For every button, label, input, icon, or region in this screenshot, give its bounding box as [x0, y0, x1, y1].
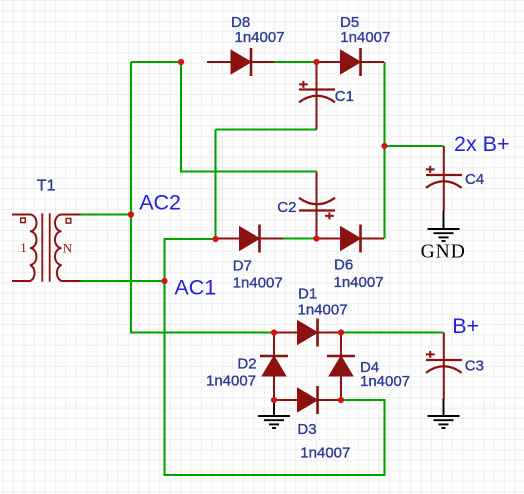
svg-text:B+: B+: [452, 314, 479, 338]
svg-text:1n4007: 1n4007: [340, 29, 390, 46]
svg-text:2x B+: 2x B+: [454, 132, 510, 156]
svg-text:D7: D7: [233, 257, 252, 274]
svg-text:1: 1: [20, 240, 27, 255]
svg-text:C1: C1: [335, 88, 354, 105]
svg-text:1n4007: 1n4007: [233, 275, 283, 292]
svg-text:GND: GND: [421, 241, 466, 262]
svg-text:T1: T1: [37, 177, 56, 194]
svg-text:D1: D1: [298, 286, 317, 303]
svg-text:D3: D3: [297, 421, 316, 438]
svg-text:C2: C2: [277, 199, 296, 216]
svg-text:C3: C3: [465, 357, 484, 374]
svg-text:1n4007: 1n4007: [300, 445, 350, 462]
svg-text:1n4007: 1n4007: [360, 373, 410, 390]
svg-text:D2: D2: [237, 355, 256, 372]
svg-text:1n4007: 1n4007: [206, 373, 256, 390]
svg-text:1n4007: 1n4007: [298, 301, 348, 318]
svg-text:C4: C4: [465, 171, 484, 188]
svg-text:1n4007: 1n4007: [235, 29, 285, 46]
svg-text:N: N: [63, 241, 73, 256]
svg-text:AC1: AC1: [174, 276, 216, 300]
svg-text:1n4007: 1n4007: [334, 274, 384, 291]
svg-text:AC2: AC2: [139, 191, 181, 215]
svg-text:D6: D6: [334, 256, 353, 273]
